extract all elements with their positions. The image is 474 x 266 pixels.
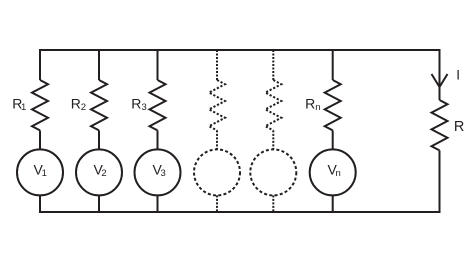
wire branch2 mid — [98, 130, 100, 149]
label R3 — [131, 96, 146, 114]
label R1 — [12, 96, 26, 114]
svg-text:R: R — [454, 119, 464, 135]
label V1 — [34, 161, 47, 179]
wire branch-n mid — [332, 130, 334, 149]
wire branch3 top stub — [157, 49, 159, 80]
source phantom branch5 (dashed) — [250, 149, 296, 195]
wire branch2 bottom stub — [98, 195, 100, 213]
svg-text:R: R — [305, 96, 315, 112]
source V1 — [17, 149, 63, 195]
wire right branch upper — [439, 49, 441, 100]
resistor Rn — [325, 80, 341, 130]
current arrow I — [432, 74, 448, 87]
wire branch2 top stub — [98, 49, 100, 80]
wire bottom bus node — [39, 211, 441, 213]
svg-text:3: 3 — [161, 168, 166, 179]
source V2 — [76, 149, 122, 195]
svg-text:n: n — [315, 102, 320, 113]
svg-text:I: I — [456, 68, 460, 83]
label Vn — [328, 161, 341, 179]
svg-text:3: 3 — [142, 102, 147, 113]
wire phantom branch4 mid (dashed) — [216, 130, 218, 149]
label V3 — [153, 161, 166, 179]
wire branch1 top stub — [39, 49, 41, 80]
svg-text:1: 1 — [42, 168, 47, 179]
wire top bus node — [39, 49, 441, 51]
wire phantom branch4 top stub (dashed) — [216, 50, 218, 80]
wire right branch lower — [439, 150, 441, 213]
wire phantom branch4 bottom stub (dashed) — [216, 195, 218, 212]
label V2 — [94, 161, 107, 179]
wire phantom branch5 mid (dashed) — [272, 130, 274, 149]
svg-text:R: R — [71, 96, 81, 112]
resistor R2 — [91, 80, 107, 130]
wire branch-n bottom stub — [332, 195, 334, 213]
svg-text:1: 1 — [21, 102, 26, 113]
resistor R3 — [150, 80, 166, 130]
svg-text:n: n — [336, 168, 341, 179]
wire branch3 mid — [157, 130, 159, 149]
svg-text:2: 2 — [81, 102, 86, 113]
wire phantom branch5 top stub (dashed) — [272, 50, 274, 80]
wire branch-n top stub — [332, 49, 334, 80]
wire branch3 bottom stub — [157, 195, 159, 213]
label Rn — [305, 96, 320, 114]
source Vn — [310, 149, 356, 195]
resistor R (load) — [432, 100, 448, 150]
source phantom branch4 (dashed) — [194, 149, 240, 195]
wire branch1 bottom stub — [39, 195, 41, 213]
svg-text:R: R — [131, 96, 141, 112]
wire branch1 mid — [39, 130, 41, 149]
resistor phantom branch5 (dashed) — [265, 80, 281, 130]
wire phantom branch5 bottom stub (dashed) — [272, 195, 274, 212]
source V3 — [135, 149, 181, 195]
svg-text:2: 2 — [101, 168, 106, 179]
label R2 — [71, 96, 86, 114]
resistor phantom branch4 (dashed) — [209, 80, 225, 130]
resistor R1 — [32, 80, 48, 130]
